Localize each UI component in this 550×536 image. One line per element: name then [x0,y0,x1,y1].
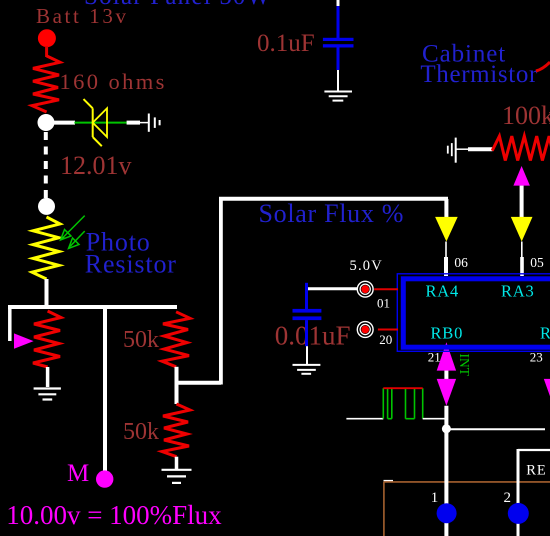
IC U1 thick border [403,279,550,347]
wire red pad 01 to pin RA4 [374,288,398,290]
svg-text:M: M [67,460,89,487]
svg-text:RE: RE [526,463,547,479]
wire INT node vertical [444,406,448,536]
wire channel 06 [444,199,448,217]
resistor R1 160 ohms [32,56,60,112]
pointer squiggle to thermistor [536,62,550,71]
relay pin 2 dot (blue) [508,503,529,524]
svg-text:50k: 50k [123,419,159,445]
svg-text:RA3: RA3 [501,281,535,300]
svg-text:05: 05 [530,255,544,270]
wire photoresistor to bus [45,279,49,307]
wire channel 06 to pin [445,242,447,258]
svg-text:160 ohms: 160 ohms [60,69,167,94]
svg-text:Thermistor: Thermistor [420,61,538,88]
photoresistor R2 [32,217,60,279]
relay pin 1 dot (blue) [437,503,457,523]
svg-text:RA4: RA4 [426,281,460,300]
waveform baseline right [423,418,445,420]
svg-text:06: 06 [454,255,468,270]
wire bus left drop to wiper [8,305,12,341]
arrow channel 05 down (yellow) [511,217,533,242]
svg-text:0.1uF: 0.1uF [257,30,315,57]
wire ground to R6 [456,148,468,150]
wire green through diode D1 [74,122,127,124]
svg-text:5.0V: 5.0V [350,258,383,274]
wire between INT arrows [444,369,448,380]
capacitor C2 plates [293,309,322,313]
ground G6 [293,364,321,366]
waveform top limit (red) [383,387,422,389]
node junction B (white) [38,198,55,215]
wire R3 to ground [46,367,50,387]
wire channel 05 to pin [521,242,523,258]
svg-text:01: 01 [377,296,390,311]
svg-text:12.01v: 12.01v [60,151,132,180]
svg-text:10.00v = 100%Flux: 10.00v = 100%Flux [6,500,222,530]
svg-text:23: 23 [530,350,543,365]
svg-text:1: 1 [431,490,439,506]
arrow channel 05 up (magenta) [513,166,530,186]
wire top horizontal to channel 06 [219,197,448,201]
wire cap to pad 01 [306,287,358,290]
resistor R4 50k upper [162,312,190,367]
wire riser to top [219,197,223,385]
diode D1 zener wing top [84,99,93,108]
IC U1 outer border [397,274,550,352]
relay box RE [518,449,550,451]
ground G2 [34,387,61,389]
node meter dot M (magenta) [96,470,113,487]
diode D1 anode triangle [93,108,107,137]
wire R5 to ground [175,457,179,469]
node battery terminal dot [38,29,56,47]
resistor R5 50k lower [162,404,190,457]
resistor R3 trimpot body [33,311,61,367]
arrow below pin 23 (magenta, cut off) [544,379,550,406]
waveform baseline left [346,418,383,420]
ground G3 [162,469,192,471]
capacitor C2 0.01uF top lead [305,283,308,309]
diode D1 zener cathode bar [92,108,94,137]
wire node C to right [446,428,545,430]
ground G1 sideways [148,114,150,132]
wire meter tap M [103,307,107,471]
wire red pad 20 to pin RB0 [378,329,398,331]
wire node A to diode [53,121,75,125]
terminal pad 01 [357,281,373,297]
waveform low segments (green) [388,418,392,420]
diode D1 zener wing bottom [93,137,102,146]
node junction A (white) [38,114,55,131]
node junction C (white dot) [442,424,451,433]
wire channel 05 [520,186,524,217]
light arrow 2 [70,231,85,246]
capacitor C1 bottom lead [337,48,340,71]
svg-text:21: 21 [428,350,441,365]
enclosure box (brown) horizontal [384,481,550,483]
svg-text:RB0: RB0 [431,324,464,343]
capacitor C2 bottom lead [305,320,308,346]
arrow channel 06 down (yellow) [435,217,458,242]
light arrow 1 [62,216,85,239]
svg-text:INT: INT [457,354,472,377]
svg-text:20: 20 [379,332,392,347]
svg-text:0.01uF: 0.01uF [275,321,351,351]
svg-text:100k: 100k [502,101,550,130]
wire junction to riser [177,381,222,385]
capacitor C1 plates [323,38,354,41]
wire diode to ground [127,121,140,125]
svg-text:Resistor: Resistor [85,250,177,279]
svg-text:Solar Flux %: Solar Flux % [259,199,405,228]
terminal pad 20 [357,322,373,338]
svg-text:2: 2 [504,490,512,506]
wiper arrow (magenta) of trimpot R3 [14,333,34,348]
waveform pulse edges (green) [382,388,384,419]
wire divider junction [175,367,179,404]
resistor R6 100k thermistor [492,136,550,160]
enclosure box (brown) vertical [383,482,385,536]
arrow INT up (magenta) [437,342,456,370]
white tick at brown corner [384,480,394,482]
wire battery to R1 [45,46,48,57]
wire horizontal bus [8,305,177,309]
svg-text:RB1: RB1 [540,324,550,343]
svg-text:Batt 13v: Batt 13v [36,4,129,28]
wire dashed node A to node B [44,132,48,199]
ground G5 sideways [455,138,457,163]
ground G4 [324,91,352,93]
arrow INT down (magenta) [437,379,456,406]
svg-text:50k: 50k [123,327,159,353]
capacitor C1 0.1uF top lead [337,0,340,8]
